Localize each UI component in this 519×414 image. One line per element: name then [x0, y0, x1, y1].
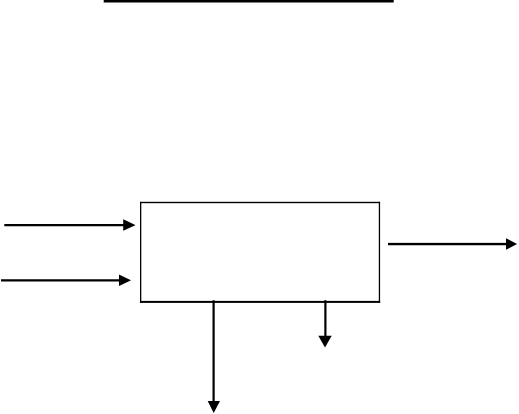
down arrow short	[318, 300, 331, 347]
input arrow 1 (upper left)	[4, 219, 135, 231]
title underline	[104, 0, 394, 3]
output arrow (right)	[388, 238, 517, 250]
process box	[140, 202, 380, 303]
down arrow long	[208, 300, 220, 413]
input arrow 2 (lower left)	[1, 275, 131, 287]
